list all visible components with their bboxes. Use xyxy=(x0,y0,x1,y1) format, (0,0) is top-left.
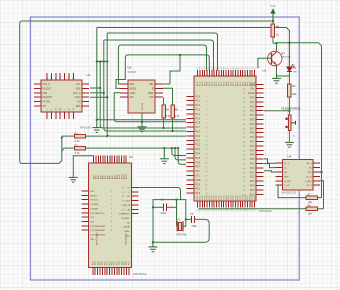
svg-text:P6.0: P6.0 xyxy=(254,82,256,86)
junction collector node xyxy=(276,42,278,44)
svg-text:VBAT: VBAT xyxy=(148,92,154,95)
svg-text:P0.6: P0.6 xyxy=(250,124,255,126)
svg-text:2N2222A: 2N2222A xyxy=(281,56,291,59)
ic U1 body xyxy=(194,76,256,201)
svg-text:MPU6050: MPU6050 xyxy=(80,127,92,130)
pins U3 bottom xyxy=(93,268,129,276)
svg-text:FLEXIFORCE: FLEXIFORCE xyxy=(282,107,301,111)
pin names U2 top xyxy=(47,76,75,79)
junction jog a xyxy=(96,61,98,63)
capacitor C2 xyxy=(191,216,194,223)
junction VCC/rail xyxy=(272,20,274,22)
svg-text:VLOGIC: VLOGIC xyxy=(43,88,52,90)
wire X1 right to C2 node xyxy=(181,200,186,227)
ground G6 Q1 emitter xyxy=(272,76,281,83)
svg-text:VSS: VSS xyxy=(149,97,154,99)
svg-text:P5.3: P5.3 xyxy=(250,181,255,183)
wire Q1 collector stub xyxy=(276,43,278,50)
pin names U1 top xyxy=(197,82,256,86)
wire R8 right lead up to U4 xyxy=(318,181,324,209)
svg-text:P4.2: P4.2 xyxy=(250,142,255,144)
svg-text:DIOB: DIOB xyxy=(125,201,130,203)
svg-text:P1.6: P1.6 xyxy=(196,123,201,125)
svg-text:R1: R1 xyxy=(75,132,79,136)
svg-text:ALMF: ALMF xyxy=(130,92,137,95)
svg-text:U1: U1 xyxy=(263,69,267,73)
svg-text:INT: INT xyxy=(43,106,47,108)
svg-text:P1.2: P1.2 xyxy=(196,105,201,107)
svg-text:Q1: Q1 xyxy=(281,51,285,55)
wire loop L2 (bundle to U1 top pin) xyxy=(107,33,217,71)
junction rail/C1 branch xyxy=(152,241,154,243)
junction U2 stub c xyxy=(106,96,108,98)
pins U5 left xyxy=(120,84,128,97)
svg-text:P2.0: P2.0 xyxy=(196,184,201,186)
junction L5 branch xyxy=(179,54,181,56)
pin names U1 right xyxy=(248,84,255,196)
svg-text:SCL: SCL xyxy=(76,84,81,86)
svg-text:DIO: DIO xyxy=(127,196,131,198)
svg-text:50: 50 xyxy=(254,209,256,211)
wire S3 to U1 pin xyxy=(178,148,186,164)
svg-text:SCL: SCL xyxy=(130,97,135,99)
wire loop L5 (U5 pin2 to U1 top) xyxy=(116,55,209,89)
wire R1 left lead to rail junction xyxy=(62,135,75,137)
pin names U2 left xyxy=(43,83,53,108)
svg-text:P3.2: P3.2 xyxy=(196,145,201,147)
junction S1 xyxy=(171,147,173,149)
svg-text:P5.0: P5.0 xyxy=(250,168,255,170)
wire U1 to U4 pin2 xyxy=(264,164,276,168)
svg-text:VBL_1: VBL_1 xyxy=(90,239,96,241)
svg-text:P5.2: P5.2 xyxy=(250,177,255,179)
svg-text:U2: U2 xyxy=(87,73,91,77)
svg-text:GND: GND xyxy=(196,180,201,182)
svg-text:MAX3232CPE: MAX3232CPE xyxy=(282,192,297,195)
resistor R3 xyxy=(288,84,290,86)
wire R5 bottom to bus4 xyxy=(172,124,174,131)
svg-text:U3: U3 xyxy=(129,155,133,159)
wire U4 pin3 stub xyxy=(320,171,322,173)
svg-text:P1.7/TRACESW1: P1.7/TRACESW1 xyxy=(90,229,105,232)
svg-text:P1.5: P1.5 xyxy=(196,118,201,120)
svg-text:22pF: 22pF xyxy=(192,225,198,228)
svg-text:AUX_D: AUX_D xyxy=(43,83,51,86)
svg-text:REGOUT: REGOUT xyxy=(43,97,53,99)
wire U1 pin to Q1 base xyxy=(258,58,272,68)
wire R2 left lead diagonal to rail xyxy=(62,148,75,151)
junction D1 top on long wire xyxy=(288,42,290,44)
svg-text:P3.7: P3.7 xyxy=(196,167,201,169)
svg-text:NC: NC xyxy=(77,102,81,104)
pin names U5 right xyxy=(148,84,154,99)
wire C2 left lead xyxy=(186,218,192,220)
pins U1 top xyxy=(198,70,255,77)
wire U1 to U4 pin1 xyxy=(264,159,276,163)
wire flex top lead xyxy=(288,111,290,115)
svg-text:P3.1/XL2: P3.1/XL2 xyxy=(90,200,98,202)
svg-text:R6: R6 xyxy=(276,25,280,29)
pins U5 right xyxy=(155,84,163,97)
svg-text:P0.7: P0.7 xyxy=(250,128,255,130)
wire C1 right lead xyxy=(166,206,176,208)
junction bus2/U5 ground stub xyxy=(141,121,143,123)
resistor R6 xyxy=(272,21,274,24)
svg-text:AD0: AD0 xyxy=(43,92,48,95)
ground G4 on bus6 xyxy=(160,148,169,164)
wire S1 to U1 pin xyxy=(172,148,186,155)
svg-text:P0.7: P0.7 xyxy=(129,261,131,265)
svg-text:P0.0: P0.0 xyxy=(250,98,255,100)
svg-text:P3.0: P3.0 xyxy=(196,136,201,138)
svg-text:X24C08: X24C08 xyxy=(128,72,137,74)
svg-text:C1: C1 xyxy=(161,197,165,201)
wire R3 bottom to flex node xyxy=(288,95,290,111)
svg-text:RXD/LY: RXD/LY xyxy=(90,195,97,197)
wire U1 to U4 pin3 xyxy=(264,171,276,172)
wire C1 left lead xyxy=(153,206,163,208)
svg-text:VBL: VBL xyxy=(149,84,154,86)
wire Q1 emitter down xyxy=(276,67,278,76)
pin names U1 bottom xyxy=(197,196,256,200)
pins U1 bottom xyxy=(198,201,255,208)
pin names U3 top xyxy=(92,175,128,180)
svg-text:22pF: 22pF xyxy=(161,212,167,215)
svg-text:P7.0: P7.0 xyxy=(254,196,256,200)
wire U3 pin to ground G3 xyxy=(73,156,93,178)
wire long bottom net to R8 xyxy=(199,208,306,210)
svg-text:SS1: SS1 xyxy=(90,191,94,193)
diode D1 LED xyxy=(287,64,295,71)
pins U4 left xyxy=(276,163,283,185)
sheet border xyxy=(30,17,299,280)
wire crystal node left run xyxy=(153,200,181,243)
pins U2 right xyxy=(82,84,89,106)
ground G7 flexiforce xyxy=(285,142,294,147)
junction S2 xyxy=(174,147,176,149)
svg-text:R_AD1: R_AD1 xyxy=(305,180,312,183)
svg-text:C2: C2 xyxy=(190,212,194,216)
svg-text:TRACEDATA: TRACEDATA xyxy=(125,233,128,245)
svg-text:SDA: SDA xyxy=(76,87,81,90)
svg-text:CLKO: CLKO xyxy=(74,97,80,99)
svg-text:P4.3: P4.3 xyxy=(250,146,255,148)
wire R6 bottom lead jog xyxy=(273,42,277,44)
svg-text:P1.6/TRACESW0: P1.6/TRACESW0 xyxy=(90,225,105,228)
svg-text:P0.3: P0.3 xyxy=(250,111,255,113)
wire U1 pin to flex node xyxy=(264,110,289,112)
svg-text:AC_2: AC_2 xyxy=(306,184,312,187)
wire U5 right pin1 branch to L5 xyxy=(163,55,180,84)
wire R7 right lead to vertical xyxy=(318,197,322,199)
wire collector node to right vertical xyxy=(277,43,322,198)
pin names U3 left xyxy=(90,191,105,241)
svg-text:CRYSTAL: CRYSTAL xyxy=(176,234,187,237)
wire C2 right to ground rail xyxy=(153,219,209,242)
svg-text:T_GD: T_GD xyxy=(284,185,290,187)
svg-text:LED: LED xyxy=(293,72,298,74)
pin names U3 bottom xyxy=(93,261,131,265)
svg-text:R2: R2 xyxy=(75,144,79,148)
svg-text:SMDO: SMDO xyxy=(124,231,130,233)
svg-text:GND: GND xyxy=(284,176,289,178)
wire bus3 bundle to U1 xyxy=(100,62,186,129)
svg-text:P4.0: P4.0 xyxy=(250,133,255,135)
pin names U2 right xyxy=(73,84,81,108)
resistor R1 xyxy=(73,135,75,137)
svg-text:R3: R3 xyxy=(292,84,296,88)
svg-text:AUX_C: AUX_C xyxy=(73,92,81,95)
resistor R8 xyxy=(305,208,308,210)
svg-text:P0.6/MPC: P0.6/MPC xyxy=(121,218,130,220)
svg-text:P3.5: P3.5 xyxy=(196,158,201,160)
pins U2 top xyxy=(47,73,73,80)
svg-text:AGND: AGND xyxy=(248,92,255,95)
pins U3 left xyxy=(82,191,89,230)
svg-text:P5.4: P5.4 xyxy=(250,186,255,188)
svg-text:P4.5: P4.5 xyxy=(250,155,255,157)
pin names U2 bottom xyxy=(47,107,75,110)
ground G1 under bus1 xyxy=(92,120,101,133)
svg-text:U5: U5 xyxy=(128,66,132,70)
svg-text:VBL_IN: VBL_IN xyxy=(123,205,130,207)
wire bus6 R2 line xyxy=(86,147,179,149)
pins U3 top xyxy=(94,156,127,164)
svg-text:VCC: VCC xyxy=(270,5,275,8)
svg-text:P3.3: P3.3 xyxy=(196,149,201,151)
pins U1 left xyxy=(187,96,195,193)
wire loop L3 xyxy=(104,40,214,71)
junction C2 left xyxy=(185,218,187,220)
resistor R5 xyxy=(172,104,174,106)
wire U2 pin INT stub xyxy=(90,96,107,98)
svg-text:P0.5: P0.5 xyxy=(250,120,255,122)
junction jog b xyxy=(99,61,101,63)
svg-text:10k: 10k xyxy=(292,92,297,96)
svg-text:P1.4: P1.4 xyxy=(196,114,201,116)
svg-text:P3.4/TRACECLK: P3.4/TRACECLK xyxy=(90,212,105,215)
svg-text:P2.1: P2.1 xyxy=(196,189,201,191)
svg-text:P89V51RD2: P89V51RD2 xyxy=(133,273,147,276)
ground G5 crystal rail xyxy=(148,242,157,252)
ground G2 under U5 xyxy=(138,126,147,132)
junction jog d xyxy=(106,61,108,63)
svg-text:P1.0: P1.0 xyxy=(196,96,201,98)
svg-text:P3.3/AN1: P3.3/AN1 xyxy=(90,207,98,210)
svg-text:P3.1: P3.1 xyxy=(196,140,201,142)
svg-text:P1.3: P1.3 xyxy=(196,110,201,112)
wire bus4 loop L3 leg to U1 xyxy=(104,40,186,131)
svg-text:ADDR: ADDR xyxy=(130,87,137,90)
ic U3 body xyxy=(89,163,132,268)
svg-text:RST: RST xyxy=(196,132,201,134)
junction U4 pin3 on vertical xyxy=(321,171,323,173)
pin numbers U1 left inner xyxy=(205,96,208,195)
svg-text:P1.1: P1.1 xyxy=(196,101,201,103)
svg-text:AD14: AD14 xyxy=(125,175,128,180)
svg-text:P0.2: P0.2 xyxy=(250,106,255,108)
crystal X1 xyxy=(177,221,183,231)
svg-text:P3.5: P3.5 xyxy=(90,217,94,219)
svg-text:D1: D1 xyxy=(293,66,297,70)
junction U2 stub b xyxy=(103,92,105,94)
junction rail/R1 xyxy=(61,137,63,139)
svg-text:P3.6: P3.6 xyxy=(196,162,201,164)
svg-text:P0.5/MPCLK: P0.5/MPCLK xyxy=(119,214,131,216)
wire top line to D1/R3 chain xyxy=(97,28,290,67)
pins U2 bottom xyxy=(47,112,73,119)
wire D1 bottom to emitter/ground xyxy=(277,72,290,77)
svg-text:U4: U4 xyxy=(288,154,292,158)
svg-text:4.7k: 4.7k xyxy=(75,151,81,155)
junction xtal left top xyxy=(176,199,178,201)
svg-text:VC_1: VC_1 xyxy=(284,163,290,165)
resistor R7 xyxy=(305,197,308,199)
svg-text:SDA: SDA xyxy=(130,83,135,86)
resistor R4 xyxy=(163,98,165,105)
wire bus2 U5 pin3 to U1 xyxy=(114,93,186,122)
svg-text:P4.7: P4.7 xyxy=(250,164,255,166)
pin names U5 left xyxy=(130,83,137,99)
svg-text:P4.4: P4.4 xyxy=(250,150,255,152)
svg-text:R_SRV: R_SRV xyxy=(284,181,291,183)
junction bus1/ground xyxy=(96,119,98,121)
wire U3 XTAL pin to crystal node xyxy=(139,188,181,200)
junction U2 stub a xyxy=(99,87,101,89)
svg-text:P4.6: P4.6 xyxy=(250,159,255,161)
svg-text:X24C08: X24C08 xyxy=(142,102,144,110)
pin names U4 left xyxy=(284,163,291,187)
resistor R2 xyxy=(73,147,75,149)
pins U4 right xyxy=(313,163,320,185)
junction C1 left xyxy=(152,206,154,208)
ic U5 body xyxy=(128,80,155,113)
pin names U1 left xyxy=(196,96,201,195)
pins U2 left xyxy=(34,84,41,106)
capacitor C1 xyxy=(163,204,166,211)
pin numbers U3 right inner xyxy=(122,188,125,216)
svg-text:AV+: AV+ xyxy=(250,88,255,91)
svg-text:FSYNC: FSYNC xyxy=(43,102,51,104)
svg-text:P4.1: P4.1 xyxy=(250,137,255,139)
wire R3 top lead xyxy=(288,76,290,86)
svg-text:C8051F040: C8051F040 xyxy=(259,210,273,213)
junction S3 xyxy=(177,147,179,149)
wire U2 pin SCL stub xyxy=(90,87,100,89)
pin numbers U1 bottom outside xyxy=(197,209,256,211)
svg-text:SMDAT: SMDAT xyxy=(124,226,131,229)
svg-text:75: 75 xyxy=(254,67,256,69)
svg-text:4.7k: 4.7k xyxy=(75,139,81,143)
junction flex node xyxy=(288,110,290,112)
pin names U3 right xyxy=(119,188,131,238)
svg-text:X1: X1 xyxy=(177,217,181,221)
wire R5 top bend to U5 xyxy=(163,88,173,105)
wire R4 bottom to bus3 xyxy=(163,124,165,128)
svg-text:AT89C51RD2: AT89C51RD2 xyxy=(96,232,99,245)
pin numbers U3 left inner xyxy=(110,191,113,232)
transistor Q1 xyxy=(268,50,282,67)
ic U2 body xyxy=(41,80,82,112)
wire U2 pin SDA stub xyxy=(90,92,104,94)
svg-text:P1.7: P1.7 xyxy=(196,127,201,129)
pin names U4 right xyxy=(305,162,312,187)
junction jog c xyxy=(103,61,105,63)
pins U1 right xyxy=(256,84,264,194)
junction R1/bus5 xyxy=(106,135,108,137)
wire VCC rail loop (R1/R2 left leads to VCC) xyxy=(20,21,273,163)
wire bus5 R1 line to U1 xyxy=(107,33,186,136)
svg-text:P5.1: P5.1 xyxy=(250,172,255,174)
wire bus1 vertical+horizontal to U1 xyxy=(97,28,186,120)
wire S2 to U1 pin xyxy=(175,148,186,160)
pin numbers U1 top outside xyxy=(197,67,256,69)
ground G3 xyxy=(69,177,78,182)
svg-text:RES: RES xyxy=(76,106,81,108)
ic U4 body xyxy=(283,160,314,191)
wire flex bottom lead xyxy=(288,131,290,142)
svg-text:P5.5: P5.5 xyxy=(250,190,255,192)
svg-text:P2.2: P2.2 xyxy=(196,193,201,195)
wire U4 pin6 to R7 left xyxy=(278,185,306,197)
pin numbers U1 right inner xyxy=(243,84,246,196)
svg-text:P3.4: P3.4 xyxy=(196,154,201,156)
svg-text:P0.1: P0.1 xyxy=(250,102,255,104)
wire crystal left vertical xyxy=(176,200,178,227)
junction R4/bus3 xyxy=(163,127,165,129)
svg-text:VD_A: VD_A xyxy=(306,175,312,178)
wire D1 top lead xyxy=(288,43,290,67)
wire loop L4 (U5 pin1 to U1 top) xyxy=(118,45,206,84)
wire U5 bottom pin stub xyxy=(141,113,143,127)
junction R5/bus4 xyxy=(172,130,174,132)
svg-text:P3.2/AN0: P3.2/AN0 xyxy=(90,203,98,206)
sensor FLEXIFORCE body xyxy=(285,115,295,131)
wire R1 right lead to bus5 xyxy=(86,135,108,137)
pins U3 right xyxy=(132,188,139,214)
svg-text:P0.4: P0.4 xyxy=(250,115,255,117)
junction bus6 ground xyxy=(163,147,165,149)
svg-text:P3.6: P3.6 xyxy=(90,221,94,223)
wire bundle jog xyxy=(97,61,107,63)
power VCC terminal xyxy=(270,8,275,21)
